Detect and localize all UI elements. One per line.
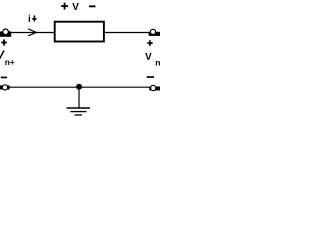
label - of Vn (right) <box>147 76 154 78</box>
label - of top V <box>89 5 96 7</box>
svg-text:V: V <box>72 2 79 13</box>
svg-text:n: n <box>155 57 160 67</box>
svg-text:i: i <box>28 14 31 25</box>
terminal bottom-right (output - terminal) <box>149 85 160 90</box>
terminal top-left (input + terminal) <box>0 29 11 37</box>
wire top-right segment <box>104 32 150 34</box>
terminal bottom-left (input - terminal) <box>0 85 10 90</box>
label + after i <box>32 15 36 21</box>
ground <box>67 108 91 115</box>
label + of Vn (right) <box>147 40 152 46</box>
label + of top V <box>61 3 68 10</box>
terminal top-right (output + terminal) <box>149 29 160 36</box>
wire ground stem <box>78 87 80 108</box>
label + of Vn+ (left) <box>1 39 7 45</box>
label - of Vn+ (left) <box>1 77 7 79</box>
svg-text:V: V <box>145 52 152 63</box>
svg-text:n+: n+ <box>5 57 15 67</box>
two-port network box U1 <box>55 22 104 42</box>
node junction dot on bottom rail <box>76 84 82 90</box>
wire top-left segment <box>9 32 55 34</box>
current direction arrow for i+ <box>28 29 36 36</box>
wire bottom segment <box>8 86 150 88</box>
